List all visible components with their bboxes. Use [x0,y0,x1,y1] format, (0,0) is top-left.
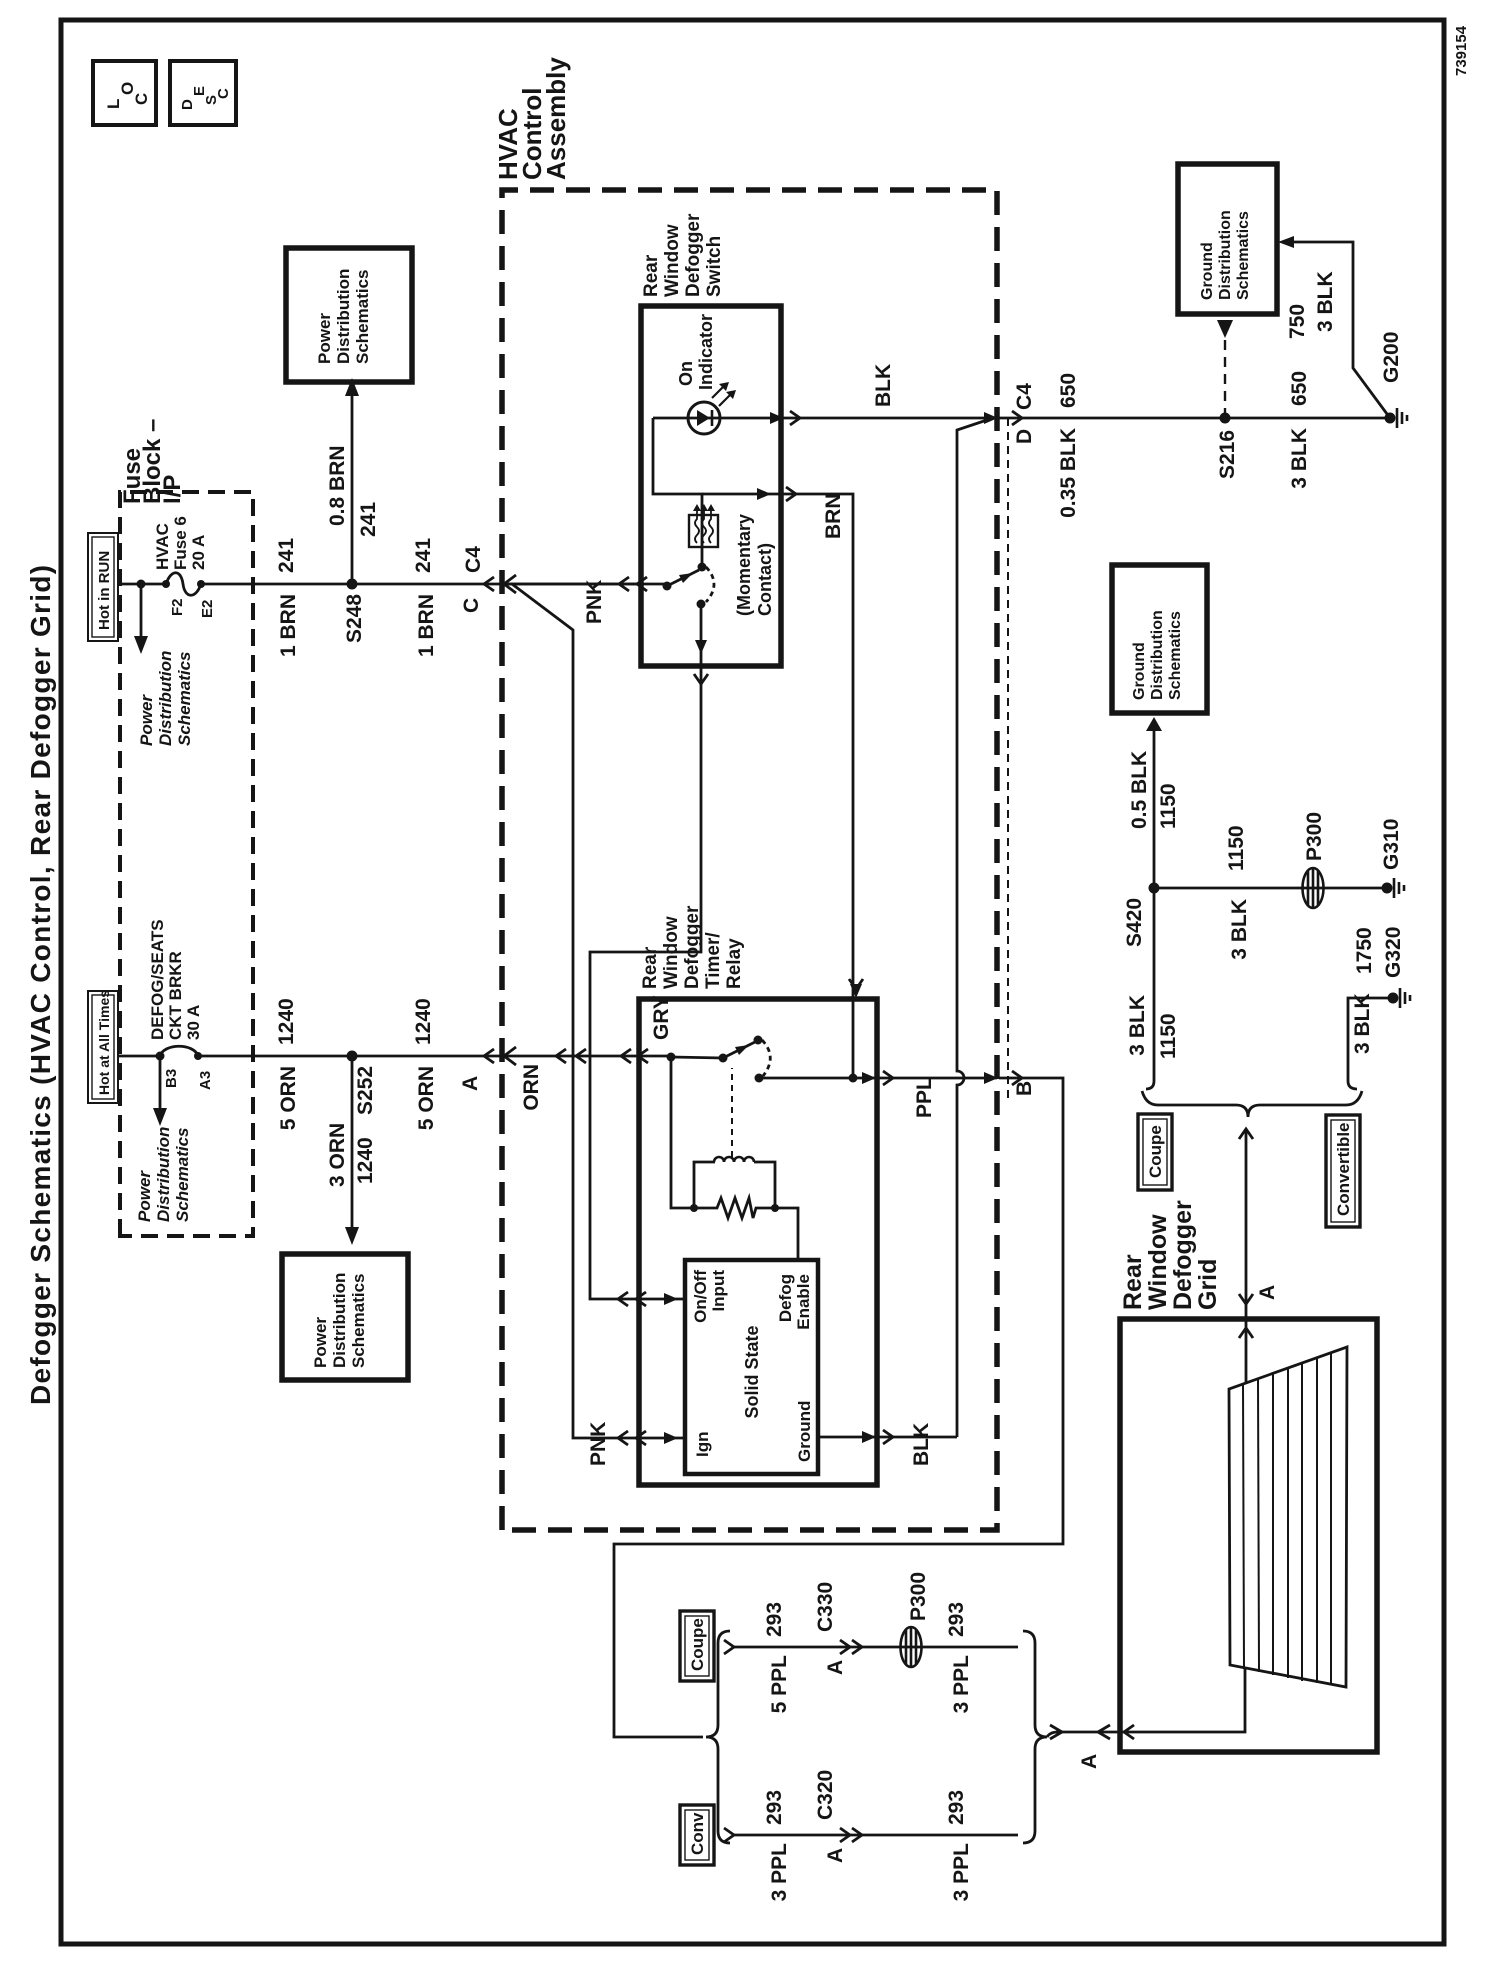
svg-text:Defogger Schematics (HVAC Cont: Defogger Schematics (HVAC Control, Rear … [25,564,56,1405]
wire: grid feed inside box [1245,1319,1248,1384]
svg-text:(Momentary: (Momentary [734,514,754,616]
svg-text:Conv: Conv [688,1812,707,1855]
svg-text:750: 750 [1286,304,1309,339]
svg-text:1150: 1150 [1157,783,1180,829]
wire: to defog enable [775,1208,798,1260]
connector C4 terminal D [984,412,998,424]
svg-text:Power: Power [311,1317,330,1368]
label Rear Window Defogger Switch [641,213,725,297]
svg-text:Rear: Rear [641,254,662,297]
wire: BRN down to C4 [201,583,641,586]
svg-text:C4: C4 [1013,383,1036,410]
grid element trapezoid [1229,1347,1347,1687]
svg-text:PPL: PPL [913,1077,936,1118]
wire: coil feed from B+ junction [671,1057,694,1208]
svg-text:739154: 739154 [1453,25,1470,76]
svg-text:293: 293 [763,1790,786,1825]
svg-text:Coupe: Coupe [1146,1125,1165,1178]
label HVAC Control Assembly [493,57,571,180]
svg-text:0.8 BRN: 0.8 BRN [326,445,349,526]
svg-text:Ign: Ign [693,1432,712,1458]
wire: switch output row to BRN [653,418,702,567]
wire: switch contact to GRY output [700,604,703,666]
svg-text:F2: F2 [169,598,186,616]
chevrons GRY into relay [618,1292,628,1306]
wire: GRY to On/Off input [590,666,701,1299]
svg-text:G200: G200 [1380,332,1403,383]
wire: 0.35 BLK 650 to S216 [997,417,1390,420]
svg-text:5 ORN: 5 ORN [415,1066,438,1130]
DESC tab box [170,61,236,125]
svg-text:BLK: BLK [872,364,895,407]
svg-text:I/P: I/P [159,475,186,504]
label Convertible (ground side) [1326,1115,1360,1227]
wire: 3 BLK 1150 down to P300 and G310 [1154,887,1387,890]
svg-text:Schematics: Schematics [175,652,194,747]
brace to grid A [1023,1631,1047,1843]
svg-text:A: A [824,1848,847,1863]
svg-text:Hot in RUN: Hot in RUN [96,551,113,630]
svg-text:3 ORN: 3 ORN [326,1123,349,1187]
svg-text:A3: A3 [197,1071,214,1090]
svg-text:A: A [824,1660,847,1675]
label power distribution schematics (fuse right) [137,651,194,746]
connector C330 [840,1640,850,1654]
wire: conv branch 3 PPL to C320 [734,1834,1018,1837]
svg-text:HVAC: HVAC [153,523,172,570]
momentary switch [663,563,715,609]
label (Momentary Contact) [734,514,775,616]
svg-text:1750: 1750 [1353,927,1376,974]
label Rear Window Defogger Grid [1119,1200,1222,1310]
svg-text:Contact): Contact) [755,543,775,616]
fuse HVAC Fuse 6 [162,573,205,596]
svg-text:L: L [104,99,123,109]
svg-text:Schematics: Schematics [173,1128,192,1223]
svg-text:3 PPL: 3 PPL [768,1843,791,1902]
svg-text:G310: G310 [1380,819,1403,870]
svg-text:Defogger: Defogger [1169,1200,1197,1310]
LED on indicator [653,382,736,434]
svg-text:Fuse 6: Fuse 6 [171,516,190,570]
LOC tab box [93,61,156,125]
svg-text:S248: S248 [343,594,366,643]
brace coupe/convertible grounds [1142,1091,1362,1117]
svg-text:293: 293 [763,1602,786,1637]
wire: BRN feed from Hot in RUN [118,583,163,586]
label HVAC Fuse 6 20 A [153,516,208,570]
svg-text:Distribution: Distribution [330,1273,349,1368]
svg-text:650: 650 [1057,373,1080,408]
Hot at All Times label box [88,990,118,1103]
wire: 3 BLK 750 branch [1292,242,1390,418]
svg-text:G320: G320 [1382,927,1405,978]
svg-text:Indicator: Indicator [696,314,716,390]
svg-text:Window: Window [1144,1214,1172,1310]
svg-text:E2: E2 [199,600,216,618]
svg-text:Schematics: Schematics [349,1274,368,1369]
svg-text:1 BRN: 1 BRN [415,594,438,657]
svg-text:650: 650 [1288,371,1311,406]
svg-text:1240: 1240 [275,998,298,1045]
svg-text:Relay: Relay [724,938,745,989]
svg-text:Timer/: Timer/ [703,932,724,989]
svg-text:B3: B3 [163,1069,180,1088]
Rear Window Defogger Switch box [641,306,781,666]
svg-text:Solid State: Solid State [742,1325,762,1418]
wire: A from grid to ground brace [1245,1129,1248,1319]
wire: branch arrow to power distribution schematics [159,1056,162,1108]
svg-text:3 PPL: 3 PPL [950,1655,973,1714]
wire: BRN inside HVAC box to switch [502,583,667,586]
svg-text:Ground: Ground [795,1401,814,1462]
wire: BLK ground run to D C4 [957,418,993,1437]
svg-text:Ground: Ground [1131,642,1148,700]
label Fuse Block - I/P [119,419,186,504]
svg-text:1150: 1150 [1225,825,1248,871]
wire: brace to grid entry [1047,1732,1058,1737]
svg-text:C: C [132,93,151,105]
svg-text:Distribution: Distribution [154,1127,173,1222]
svg-text:30 A: 30 A [184,1005,203,1040]
HVAC Control Assembly dashed box [502,190,997,1530]
label Rear Window Defogger Timer/Relay [640,905,745,989]
svg-text:PNK: PNK [587,1422,610,1466]
wire: ORN down to C4 A [198,1055,671,1058]
svg-text:5 PPL: 5 PPL [768,1655,791,1714]
svg-text:1 BRN: 1 BRN [277,594,300,657]
svg-text:293: 293 [945,1602,968,1637]
svg-text:Rear: Rear [640,946,661,989]
splice S252 [347,1051,358,1062]
svg-text:C320: C320 [814,1770,837,1820]
relay switch [667,1036,771,1083]
svg-text:241: 241 [357,502,380,537]
svg-text:1240: 1240 [412,998,435,1045]
svg-text:S216: S216 [1216,430,1239,479]
svg-text:GRY: GRY [650,995,673,1040]
wire: coupe branch 5 PPL to C330 [734,1646,1018,1649]
svg-text:Power: Power [135,1170,154,1222]
svg-text:S420: S420 [1123,898,1146,947]
svg-text:Coupe: Coupe [688,1618,707,1671]
svg-text:D: D [179,99,196,110]
wire: 0.8 BRN 241 branch to power distribution box [351,396,354,584]
wire: BLK from LED to D C4 [720,417,997,420]
svg-text:Input: Input [709,1270,728,1312]
svg-text:0.35 BLK: 0.35 BLK [1057,428,1080,518]
svg-text:BRN: BRN [822,494,845,540]
grommet P300 [1303,868,1324,908]
svg-text:Assembly: Assembly [541,57,571,180]
svg-text:Schematics: Schematics [1235,211,1252,300]
svg-text:BLK: BLK [910,1423,933,1466]
chevrons ORN wire at HVAC connector pins [556,1049,566,1063]
svg-text:On: On [676,361,696,386]
svg-text:Defogger: Defogger [682,905,703,989]
label On Indicator [676,314,716,390]
svg-text:Rear: Rear [1119,1254,1147,1310]
splice S216 [1220,413,1231,424]
label Coupe (feed side) [680,1611,714,1681]
node: branch dot to power distribution [156,1052,165,1061]
svg-text:3 BLK: 3 BLK [1288,428,1311,489]
svg-text:Power: Power [315,313,334,364]
wire: ORN feed from Hot at All Times [118,1055,163,1058]
svg-text:3 BLK: 3 BLK [1228,899,1251,960]
svg-text:Power: Power [137,694,156,746]
svg-text:DEFOG/SEATS: DEFOG/SEATS [148,919,167,1040]
wire: PPL output routing from B to braces [614,1078,1063,1737]
svg-text:PNK: PNK [583,580,606,624]
connector C4 terminal B [984,1072,998,1084]
svg-text:S252: S252 [354,1066,377,1115]
splice S248 [347,579,358,590]
splice S420 [1149,883,1160,894]
svg-text:3 BLK: 3 BLK [1351,993,1374,1054]
svg-text:3 PPL: 3 PPL [950,1843,973,1902]
svg-text:P300: P300 [907,1572,930,1621]
svg-text:1150: 1150 [1157,1013,1180,1059]
label power distribution schematics (breaker left) [135,1127,192,1222]
wire: grid ground up to brace [1056,1731,1120,1734]
C4 connector dashed indicator line [1007,418,1009,1098]
defogger grid icon [689,504,718,547]
svg-text:Distribution: Distribution [1149,610,1166,700]
svg-text:Distribution: Distribution [156,651,175,746]
chevrons PNK into relay [618,1431,628,1445]
svg-text:Window: Window [661,916,682,989]
svg-text:241: 241 [412,538,435,573]
grid element lines [1243,1352,1331,1685]
svg-text:Schematics: Schematics [353,270,372,365]
svg-text:A: A [1078,1754,1101,1769]
Rear Window Defogger Grid box [1120,1319,1377,1752]
wire: 3 BLK 1750 from convertible brace to G320 [1348,998,1393,1089]
circuit breaker DEFOG/SEATS CKT BRKR [160,1046,202,1060]
svg-text:5 ORN: 5 ORN [277,1066,300,1130]
wire: 3 ORN 1240 branch to power distribution box [351,1056,354,1227]
relay resistor [694,1198,775,1218]
svg-text:Enable: Enable [794,1274,813,1330]
svg-text:3 BLK: 3 BLK [1314,271,1337,332]
relay coil [694,1162,715,1208]
Solid State box [685,1260,818,1474]
ground G200 [1385,413,1396,424]
node: branch dot to power distribution [137,580,146,589]
svg-text:Grid: Grid [1194,1259,1222,1310]
wire: PNK branch diagonal [512,584,685,1438]
svg-text:293: 293 [945,1790,968,1825]
svg-text:A: A [1256,1285,1279,1300]
svg-text:0.5 BLK: 0.5 BLK [1128,751,1151,829]
ground G320 [1388,993,1399,1004]
svg-text:D: D [1013,429,1036,444]
grommet P300 (body) [901,1627,922,1667]
dashed link to coil [731,1068,733,1157]
wire: relay contact to PPL output [759,1077,853,1080]
svg-text:Switch: Switch [704,236,725,297]
svg-text:20 A: 20 A [189,535,208,570]
svg-text:Distribution: Distribution [334,269,353,364]
box ground distribution schematics (right) [1178,164,1277,314]
wire: ground from solid state [818,1436,957,1439]
svg-text:Ground: Ground [1199,242,1216,300]
svg-text:C4: C4 [462,546,485,573]
dashed branch to ground distribution box [1224,334,1226,418]
svg-text:Defogger: Defogger [683,213,704,297]
svg-text:On/Off: On/Off [691,1270,710,1323]
svg-text:3 BLK: 3 BLK [1126,995,1149,1056]
svg-text:C330: C330 [814,1582,837,1632]
label Coupe (ground side) [1138,1114,1172,1190]
wire: grid ground side [1120,1668,1245,1732]
connector C320 [840,1828,850,1842]
svg-text:P300: P300 [1303,812,1326,861]
label DEFOG/SEATS CKT BRKR 30 A [148,919,203,1040]
svg-text:241: 241 [275,538,298,573]
ground G310 [1382,883,1393,894]
box power distribution schematics (right) [286,248,412,382]
svg-text:CKT BRKR: CKT BRKR [166,951,185,1040]
label Conv (feed side) [680,1805,714,1865]
svg-text:Schematics: Schematics [1167,611,1184,700]
svg-text:Convertible: Convertible [1334,1122,1353,1216]
wire: 3 BLK 1150 to coupe brace [1146,888,1154,1089]
Hot in RUN label box [88,533,118,641]
svg-text:C: C [460,598,483,613]
box ground distribution schematics (left) [1112,565,1207,713]
box power distribution schematics (left) [282,1254,408,1380]
svg-text:Window: Window [662,224,683,297]
svg-text:Hot at All Times: Hot at All Times [96,990,112,1095]
svg-text:1240: 1240 [354,1137,377,1184]
Rear Window Defogger Timer/Relay box [639,999,877,1485]
svg-text:ORN: ORN [520,1064,543,1111]
wire: 0.5 BLK 1150 from ground distribution to S420 [1153,729,1156,888]
svg-text:A: A [459,1076,482,1091]
fuse block I/P dashed box [120,492,253,1236]
brace PPL coupe/conv [706,1631,730,1843]
svg-text:Defog: Defog [776,1274,795,1322]
chevrons BRN into relay right edge [850,984,862,998]
wire: branch to power distribution schematics (left arrow) [140,584,143,636]
chevrons ORN into relay [621,1049,631,1063]
svg-text:Distribution: Distribution [1217,210,1234,300]
svg-text:C: C [215,88,232,99]
